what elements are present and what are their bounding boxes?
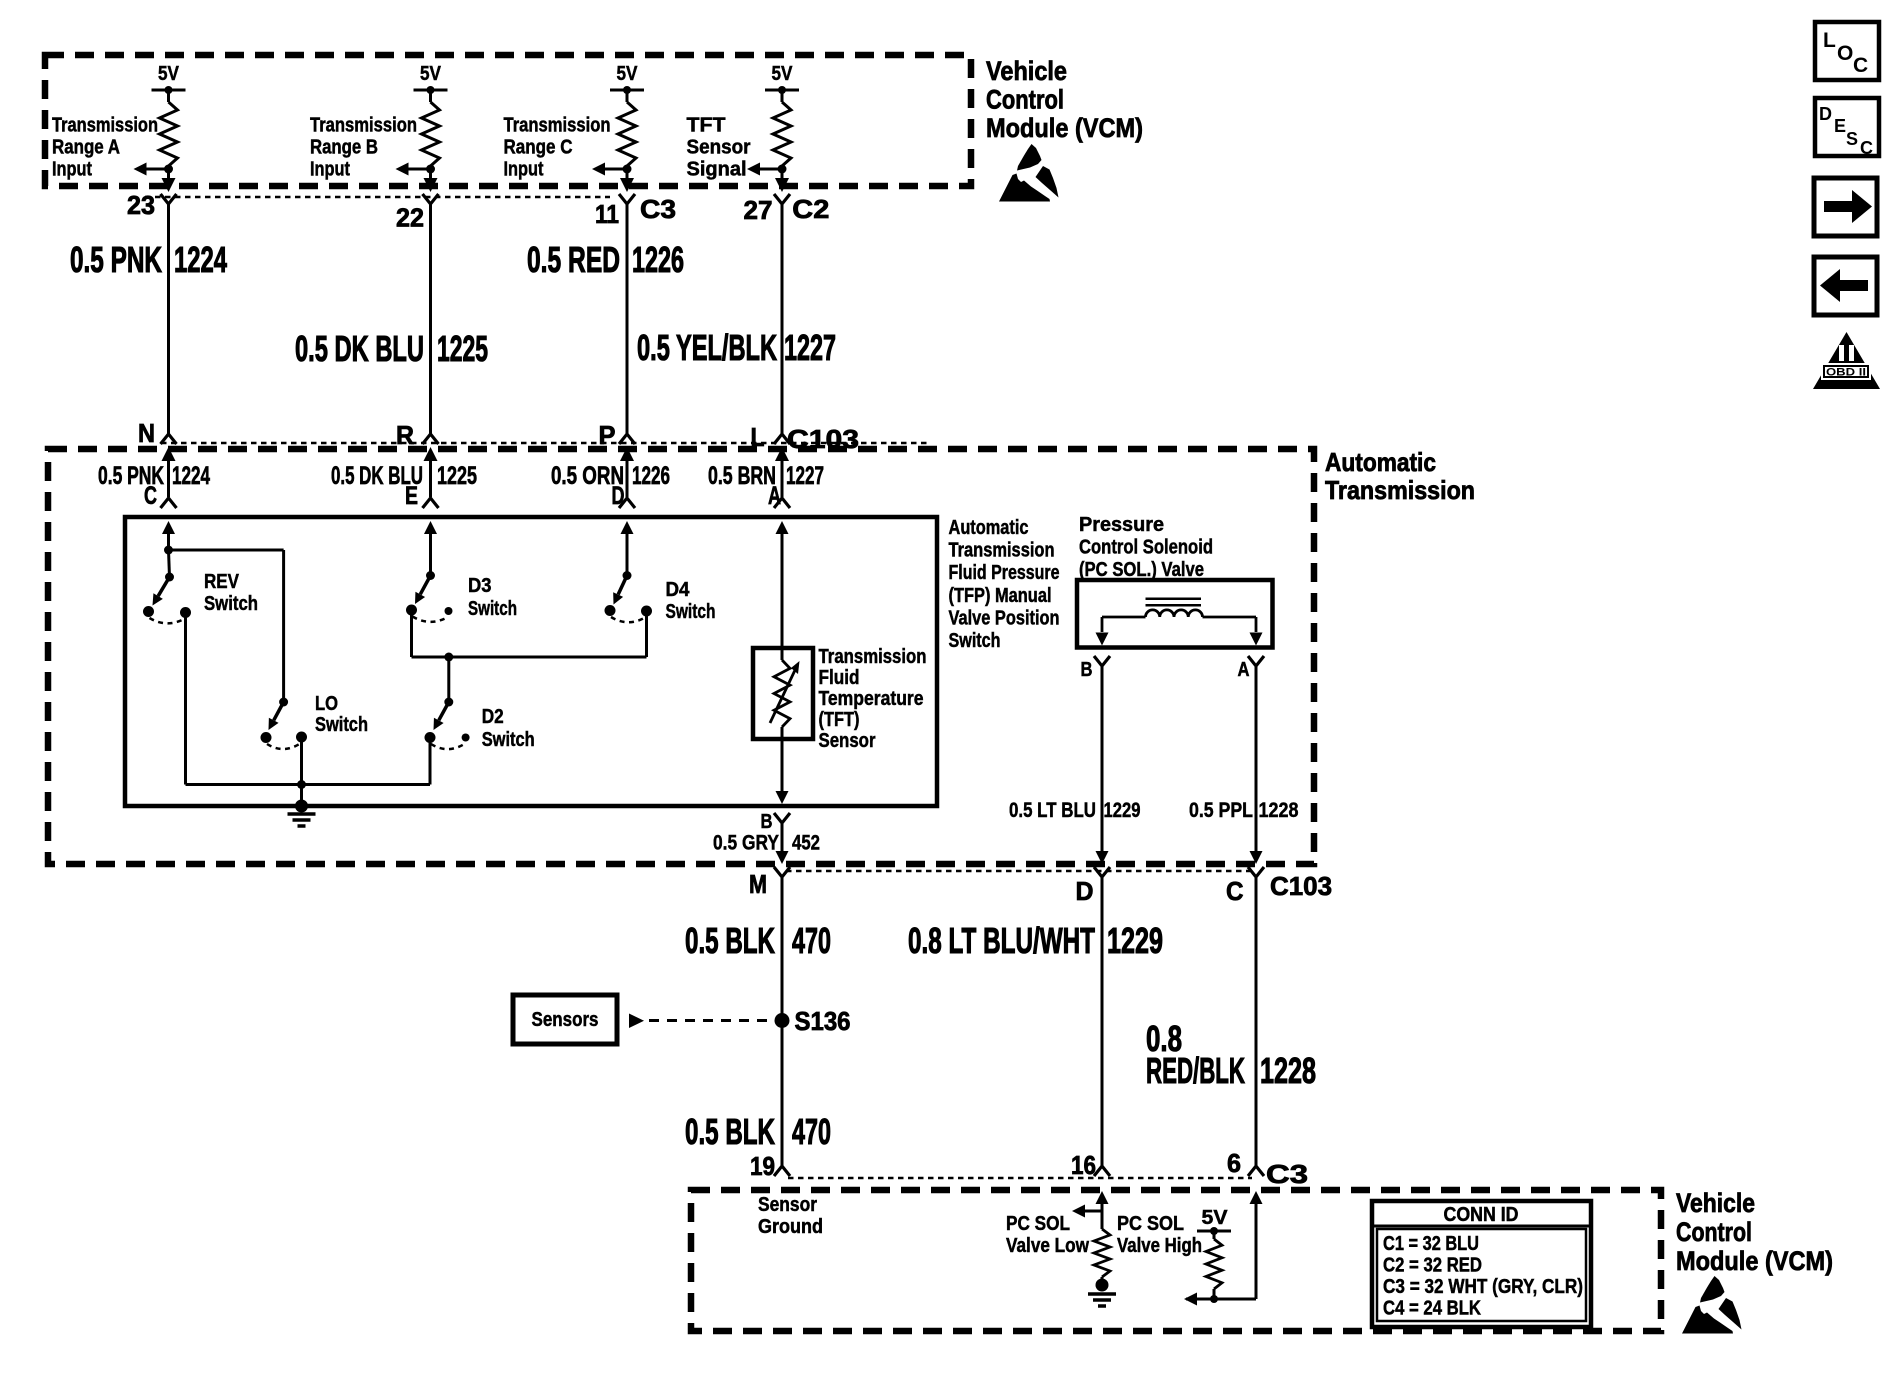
wire 1227 0.5 YEL/BLK (pin 27 to C103 L) <box>781 204 784 434</box>
svg-text:CONN ID: CONN ID <box>1444 1204 1519 1226</box>
arrow into TFP switch at D <box>621 521 634 534</box>
svg-text:23: 23 <box>127 190 155 220</box>
label PC SOL Valve High <box>1117 1213 1202 1257</box>
svg-text:Sensor: Sensor <box>687 137 751 159</box>
svg-text:D4: D4 <box>666 578 691 601</box>
label 0.5 BLK 470 (lower) <box>685 1111 831 1152</box>
D3 switch <box>406 571 453 622</box>
node: REV/LO branch junction <box>164 546 173 555</box>
bottom connector line <box>788 1177 1252 1180</box>
svg-text:R: R <box>396 420 414 450</box>
svg-text:5V: 5V <box>420 63 442 85</box>
arrow into TFP switch at E <box>424 521 437 534</box>
D4 switch <box>605 571 653 622</box>
wire E into D3 switch <box>429 530 432 576</box>
svg-text:22: 22 <box>396 203 424 233</box>
svg-text:1224: 1224 <box>174 239 227 280</box>
connector C103 cavity C fork <box>1248 867 1264 890</box>
wire C into REV switch <box>167 530 170 550</box>
pin 11 terminal fork <box>619 194 635 204</box>
svg-text:Transmission: Transmission <box>52 115 158 137</box>
signal arrow to Transmission Range B label <box>396 163 431 176</box>
label 0.5 RED 1226 <box>527 239 684 280</box>
svg-text:Switch: Switch <box>666 600 716 623</box>
pin number 19 <box>750 1151 775 1181</box>
wire 470 0.5 BLK upper segment <box>781 890 784 1166</box>
svg-text:A: A <box>768 482 781 510</box>
label: Transmission Range C Input <box>504 115 611 181</box>
svg-text:470: 470 <box>792 920 831 961</box>
solenoid core lines <box>1146 599 1202 606</box>
svg-text:(TFT): (TFT) <box>819 709 860 731</box>
svg-text:1224: 1224 <box>172 462 210 490</box>
pin letter A <box>1238 659 1250 681</box>
cavity letter M <box>749 869 767 899</box>
svg-text:Transmission: Transmission <box>1325 475 1475 505</box>
signal arrow to Transmission Range C label <box>592 163 627 176</box>
TFP switch pin E fork <box>405 482 439 510</box>
arrow into TFP switch at A <box>776 521 789 534</box>
svg-text:Automatic: Automatic <box>949 517 1029 539</box>
Automatic Transmission box <box>48 449 1314 864</box>
label 0.5 PNK 1224 (inside AT) <box>98 462 210 490</box>
CONN ID table <box>1372 1201 1591 1327</box>
svg-text:Sensor: Sensor <box>758 1194 817 1216</box>
icon: back arrow <box>1814 257 1877 315</box>
svg-text:Ground: Ground <box>758 1216 823 1238</box>
svg-text:Fluid: Fluid <box>819 667 860 689</box>
label: Pressure Control Solenoid (PC SOL.) Valve <box>1079 514 1213 581</box>
connector C103 cavity R fork <box>423 434 439 444</box>
resistor R3 (Trans Range C pull-up) <box>618 102 636 166</box>
connector name C103 (lower) <box>1270 871 1332 901</box>
wire 3 exits VCM, arrow at border <box>620 169 634 192</box>
arrow TFT wire at TFP box bottom <box>776 791 789 804</box>
label: Transmission Range B Input <box>310 115 417 181</box>
svg-text:PC SOL: PC SOL <box>1006 1213 1070 1235</box>
svg-text:LO: LO <box>315 692 338 715</box>
svg-text:Transmission: Transmission <box>504 115 611 137</box>
label: Transmission Fluid Temperature (TFT) Sensor <box>819 646 927 752</box>
svg-text:5V: 5V <box>158 63 180 85</box>
svg-text:Sensors: Sensors <box>532 1009 599 1031</box>
svg-text:O: O <box>1837 42 1853 65</box>
cavity letter L <box>751 422 765 452</box>
5V supply node wire 2 <box>414 63 448 102</box>
svg-text:1225: 1225 <box>437 462 477 490</box>
Vehicle Control Module (VCM) bottom box <box>691 1190 1661 1331</box>
svg-text:452: 452 <box>792 831 820 855</box>
svg-text:0.5 YEL/BLK: 0.5 YEL/BLK <box>637 327 777 368</box>
connector C103 cavity N fork <box>161 434 177 444</box>
label: Automatic Transmission <box>1325 447 1475 505</box>
node: resistor 4 output junction <box>778 165 787 174</box>
node: bus junction to D2 <box>444 653 453 703</box>
svg-text:M: M <box>749 869 767 899</box>
pin 22 terminal fork <box>423 194 439 204</box>
label S136 <box>795 1006 851 1036</box>
svg-text:D2: D2 <box>482 705 504 728</box>
ground (TFP switch common) <box>288 800 316 827</box>
TFP manual valve position switch box <box>125 517 937 806</box>
TFT sensor (thermistor) <box>753 648 813 739</box>
svg-text:0.5 BLK: 0.5 BLK <box>685 920 775 961</box>
connector id C2 (pin 27) <box>792 194 829 224</box>
label D4 Switch <box>666 578 716 623</box>
label D3 Switch <box>468 574 517 620</box>
svg-text:27: 27 <box>744 195 773 225</box>
svg-text:B: B <box>1081 659 1093 681</box>
PC solenoid valve box <box>1077 580 1273 648</box>
svg-text:Switch: Switch <box>949 630 1001 652</box>
svg-text:Valve High: Valve High <box>1117 1235 1202 1257</box>
label: Sensor Ground <box>758 1194 823 1238</box>
svg-text:1229: 1229 <box>1104 798 1141 822</box>
signal arrow to Transmission Range A label <box>134 163 169 176</box>
wire arrow below C103 N <box>162 447 176 497</box>
svg-text:1227: 1227 <box>786 462 824 490</box>
connector C103 cavity P fork <box>619 434 635 444</box>
svg-text:E: E <box>405 482 418 510</box>
svg-text:16: 16 <box>1071 1150 1096 1180</box>
wire 16 into VCM, arrow <box>1096 1191 1109 1229</box>
node: resistor 1 output junction <box>164 165 173 174</box>
svg-text:Valve Position: Valve Position <box>949 607 1060 629</box>
wire D4 right contact to bus <box>645 611 648 657</box>
REV switch <box>143 550 191 623</box>
node: resistor 2 output junction <box>426 165 435 174</box>
arrow into TFP switch at C <box>162 521 175 534</box>
label 0.5 GRY 452 <box>713 831 820 855</box>
solenoid pin B fork <box>1094 656 1110 852</box>
5V supply node wire 3 <box>610 63 644 102</box>
svg-text:(PC SOL.) Valve: (PC SOL.) Valve <box>1079 559 1204 581</box>
wire 1226 0.5 RED (pin 11 to C103 P) <box>626 204 629 434</box>
label PC SOL Valve Low <box>1006 1213 1089 1257</box>
wire 1228 0.8 RED/BLK <box>1255 890 1258 1166</box>
label 0.5 ORN 1226 (inside AT) <box>551 462 670 490</box>
label: Automatic Transmission Fluid Pressure (TFP) Manual Valve Position Switch <box>949 517 1060 652</box>
svg-text:1226: 1226 <box>632 462 670 490</box>
resistor (PC SOL valve high) <box>1206 1239 1222 1289</box>
ESD sensitive symbol bottom <box>1682 1276 1742 1334</box>
D2 switch <box>425 698 470 750</box>
label 0.5 LT BLU 1229 <box>1009 798 1141 822</box>
svg-text:N: N <box>138 418 155 448</box>
svg-text:C: C <box>1226 876 1244 906</box>
pin number 22 <box>396 203 424 233</box>
svg-text:C4 = 24 BLK: C4 = 24 BLK <box>1383 1298 1481 1320</box>
svg-text:6: 6 <box>1227 1148 1241 1178</box>
label 0.5 YEL/BLK 1227 <box>637 327 836 368</box>
cavity letter D <box>1076 876 1094 906</box>
wire 6 into VCM, arrow <box>1250 1191 1263 1299</box>
dashed leader to S136 <box>649 1019 775 1022</box>
ESD sensitive symbol top <box>999 144 1059 202</box>
cavity letter C <box>1226 876 1244 906</box>
resistor R1 (Trans Range A pull-up) <box>160 102 178 166</box>
svg-text:Fluid Pressure: Fluid Pressure <box>949 562 1060 584</box>
wire arrow below C103 P <box>620 447 634 497</box>
label: TFT Sensor Signal <box>687 115 751 181</box>
svg-text:(TFP) Manual: (TFP) Manual <box>949 585 1052 607</box>
svg-text:Vehicle: Vehicle <box>986 56 1067 86</box>
svg-text:PC SOL: PC SOL <box>1117 1213 1184 1235</box>
wire LO right contact to ground <box>300 737 303 806</box>
pin number 16 <box>1071 1150 1096 1180</box>
cavity letter R <box>396 420 414 450</box>
svg-text:D: D <box>1076 876 1094 906</box>
connector C103 lower line <box>786 870 1250 873</box>
label: Vehicle Control Module (VCM) top right <box>986 56 1143 143</box>
label: Transmission Range A Input <box>52 115 158 181</box>
pin 6 terminal fork <box>1248 1166 1264 1176</box>
wire D3 left contact to bus <box>410 610 413 657</box>
svg-text:Control Solenoid: Control Solenoid <box>1079 537 1213 559</box>
svg-text:Input: Input <box>504 159 544 181</box>
wire REV right contact down/over to D2 left contact <box>186 613 431 785</box>
svg-text:5V: 5V <box>772 63 794 85</box>
icon: OBD II triangle <box>1813 332 1880 389</box>
svg-text:Automatic: Automatic <box>1325 447 1436 477</box>
svg-text:0.5 GRY: 0.5 GRY <box>713 831 779 855</box>
node: resistor 3 output junction <box>623 165 632 174</box>
svg-text:RED/BLK: RED/BLK <box>1146 1050 1245 1091</box>
icon: forward arrow <box>1814 178 1877 236</box>
svg-text:Control: Control <box>986 85 1064 115</box>
5V supply node wire 1 <box>152 63 186 102</box>
svg-text:5V: 5V <box>617 63 639 85</box>
wire junction to LO switch <box>169 550 284 702</box>
connector C103 cavity L fork <box>774 434 790 444</box>
svg-text:0.5 BLK: 0.5 BLK <box>685 1111 775 1152</box>
svg-text:0.5 PPL: 0.5 PPL <box>1189 798 1253 822</box>
label 0.5 PNK 1224 <box>70 239 227 280</box>
svg-text:REV: REV <box>204 570 239 593</box>
splice S136 <box>775 1013 790 1028</box>
wire arrow below C103 L <box>775 447 789 497</box>
pin number 23 <box>127 190 155 220</box>
svg-text:Transmission: Transmission <box>819 646 927 668</box>
Vehicle Control Module (VCM) top box <box>45 55 971 186</box>
LO switch <box>261 698 308 750</box>
wire 1224 0.5 PNK (pin 23 to C103 N) <box>167 204 170 434</box>
svg-text:1228: 1228 <box>1260 1050 1316 1091</box>
label 0.8 RED/BLK 1228 <box>1146 1018 1316 1091</box>
TFP switch pin D fork <box>612 482 636 510</box>
TFP switch pin C fork <box>144 482 177 510</box>
svg-text:11: 11 <box>595 199 619 229</box>
node: junction at REV-D2 wire crossing <box>297 780 306 789</box>
svg-text:0.5 BRN: 0.5 BRN <box>708 462 776 490</box>
svg-text:TFT: TFT <box>687 115 726 137</box>
bus wire D3-D4 <box>412 656 647 659</box>
resistor R4 (TFT pull-up) <box>773 102 791 166</box>
connector C103 line <box>161 442 930 445</box>
svg-text:19: 19 <box>750 1151 775 1181</box>
svg-text:C103: C103 <box>1270 871 1332 901</box>
svg-text:A: A <box>1238 659 1250 681</box>
svg-text:Range C: Range C <box>504 137 573 159</box>
pin letter B <box>1081 659 1093 681</box>
pin number 6 <box>1227 1148 1241 1178</box>
pin number 27 <box>744 195 773 225</box>
wire 1225 0.5 DK BLU (pin 22 to C103 R) <box>429 204 432 434</box>
svg-text:S: S <box>1846 129 1858 149</box>
svg-text:Range B: Range B <box>310 137 378 159</box>
wire 1 exits VCM, arrow at border <box>162 169 176 192</box>
label REV Switch <box>204 570 258 615</box>
5V supply (PC SOL high) <box>1197 1207 1231 1239</box>
svg-text:C2: C2 <box>792 194 829 224</box>
label 0.8 LT BLU/WHT 1229 <box>908 920 1163 961</box>
svg-text:Range A: Range A <box>52 137 120 159</box>
wire A through TFT sensor <box>781 530 784 797</box>
svg-text:C: C <box>1860 138 1873 158</box>
svg-text:Signal: Signal <box>687 159 747 181</box>
svg-text:OBD II: OBD II <box>1826 367 1866 379</box>
svg-text:Input: Input <box>310 159 350 181</box>
label 0.5 PPL 1228 <box>1189 798 1299 822</box>
svg-text:0.5 RED: 0.5 RED <box>527 239 620 280</box>
svg-text:0.5 DK BLU: 0.5 DK BLU <box>295 328 424 369</box>
svg-text:Switch: Switch <box>482 728 535 751</box>
pin 16 terminal fork <box>1094 1166 1110 1176</box>
connector C103 cavity D fork <box>1094 867 1110 890</box>
connector name C103 <box>787 424 859 454</box>
svg-text:D: D <box>612 482 625 510</box>
svg-text:P: P <box>599 420 616 450</box>
svg-text:D3: D3 <box>468 574 492 597</box>
svg-text:C3 = 32 WHT (GRY, CLR): C3 = 32 WHT (GRY, CLR) <box>1383 1276 1583 1298</box>
Sensors reference box <box>513 995 617 1044</box>
svg-text:1226: 1226 <box>632 239 684 280</box>
svg-text:Pressure: Pressure <box>1079 514 1164 536</box>
svg-text:5V: 5V <box>1202 1207 1229 1229</box>
svg-text:Vehicle: Vehicle <box>1676 1188 1755 1218</box>
connector id C3 (bottom) <box>1266 1159 1308 1189</box>
svg-text:0.8 LT BLU/WHT: 0.8 LT BLU/WHT <box>908 920 1095 961</box>
arrows at AT box bottom (solenoid wires) <box>1096 851 1263 864</box>
wire 1229 0.8 LT BLU/WHT <box>1101 890 1104 1166</box>
arrow from Sensors box <box>629 1014 644 1029</box>
svg-text:Transmission: Transmission <box>310 115 417 137</box>
svg-text:470: 470 <box>792 1111 831 1152</box>
svg-text:E: E <box>1834 116 1846 136</box>
svg-text:Switch: Switch <box>315 713 368 736</box>
wire 2 exits VCM, arrow at border <box>424 169 438 192</box>
arrow GRY wire at AT box border <box>776 851 789 864</box>
svg-text:L: L <box>1823 29 1836 52</box>
svg-text:D: D <box>1819 104 1832 124</box>
pin 27 terminal fork <box>774 194 790 204</box>
label 0.5 BLK 470 (upper) <box>685 920 831 961</box>
TFP switch pin A fork <box>768 482 790 510</box>
pin 19 terminal fork <box>774 1166 790 1176</box>
svg-text:Switch: Switch <box>204 592 258 615</box>
cavity letter P <box>599 420 616 450</box>
svg-text:Temperature: Temperature <box>819 688 924 710</box>
solenoid pin A fork <box>1248 656 1264 852</box>
svg-text:0.5 PNK: 0.5 PNK <box>70 239 162 280</box>
svg-text:S136: S136 <box>795 1006 851 1036</box>
coil lead arrows at box bottom <box>1096 633 1263 646</box>
svg-text:C1 = 32 BLU: C1 = 32 BLU <box>1383 1233 1479 1255</box>
label 0.5 DK BLU 1225 (inside AT) <box>331 462 477 490</box>
connector line (VCM top header) <box>145 196 610 199</box>
svg-text:Sensor: Sensor <box>819 730 876 752</box>
pin 23 terminal fork <box>161 194 177 204</box>
svg-text:Module (VCM): Module (VCM) <box>1676 1246 1833 1276</box>
resistor (PC SOL valve low driver) <box>1094 1229 1110 1277</box>
svg-text:C3: C3 <box>1266 1159 1308 1189</box>
PC SOL Valve Low signal arrow <box>1072 1205 1102 1218</box>
svg-text:C3: C3 <box>640 194 676 224</box>
wire D into D4 switch <box>626 530 629 576</box>
svg-text:1229: 1229 <box>1107 920 1163 961</box>
label: Vehicle Control Module (VCM) bottom right <box>1676 1188 1833 1276</box>
svg-text:Control: Control <box>1676 1217 1752 1247</box>
svg-text:C: C <box>1853 54 1868 77</box>
svg-text:0.5 LT BLU: 0.5 LT BLU <box>1009 798 1096 822</box>
svg-text:1228: 1228 <box>1259 798 1299 822</box>
wire from pin 6 to resistor, left arrow <box>1184 1289 1256 1306</box>
connector id C3 (pin 11) <box>640 194 676 224</box>
svg-text:C: C <box>144 482 157 510</box>
pin letter B <box>761 811 773 833</box>
svg-text:Module (VCM): Module (VCM) <box>986 113 1143 143</box>
cavity letter N <box>138 418 155 448</box>
svg-text:C2 = 32 RED: C2 = 32 RED <box>1383 1255 1482 1277</box>
icon: DESC <box>1815 98 1879 158</box>
label 0.5 BRN 1227 (inside AT) <box>708 462 824 490</box>
label D2 Switch <box>482 705 535 751</box>
TFT pin B fork <box>774 813 790 856</box>
label LO Switch <box>315 692 368 736</box>
wire 4 exits VCM, arrow at border <box>775 169 789 192</box>
signal arrow to TFT Sensor label <box>747 163 782 176</box>
svg-text:1227: 1227 <box>784 327 836 368</box>
icon: LOC <box>1815 22 1879 80</box>
wire arrow below C103 R <box>424 447 438 497</box>
svg-text:Input: Input <box>52 159 92 181</box>
5V supply node wire 4 <box>765 63 799 102</box>
svg-text:Switch: Switch <box>468 597 517 620</box>
ground (PC SOL low) <box>1088 1277 1116 1306</box>
pin number 11 <box>595 199 619 229</box>
svg-text:1225: 1225 <box>437 328 488 369</box>
svg-text:Valve Low: Valve Low <box>1006 1235 1089 1257</box>
label 0.5 DK BLU 1225 <box>295 328 488 369</box>
connector C103 cavity M fork <box>774 867 790 890</box>
solenoid coil L1 <box>1102 610 1256 632</box>
svg-text:C103: C103 <box>787 424 859 454</box>
svg-text:Transmission: Transmission <box>949 540 1055 562</box>
resistor R2 (Trans Range B pull-up) <box>422 102 440 166</box>
